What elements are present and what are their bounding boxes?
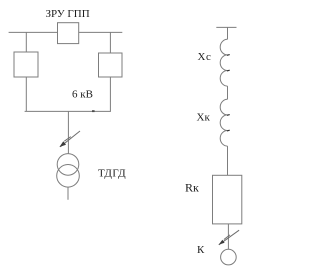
svg-text:ЗРУ ГПП: ЗРУ ГПП xyxy=(46,8,90,20)
wire left stub xyxy=(25,32,27,52)
breaker box right xyxy=(99,53,123,77)
wire bus 6kV top xyxy=(9,31,123,33)
wire feeder drop xyxy=(67,111,69,153)
fault node circle K xyxy=(221,249,237,265)
short-circuit arrow K1 xyxy=(59,131,80,147)
inductor Xc xyxy=(220,39,227,86)
breaker box on bus xyxy=(58,23,79,44)
inductor Xk xyxy=(220,99,227,146)
svg-text:Хс: Хс xyxy=(198,51,212,63)
svg-text:Хк: Хк xyxy=(197,112,211,124)
wire source to Xc xyxy=(227,27,229,39)
wire left drop xyxy=(25,77,27,111)
wire Xk to Rk xyxy=(227,146,229,175)
inductor Xc cusp ticks xyxy=(227,54,230,57)
resistor Rk xyxy=(213,175,242,224)
wire bus 6kV bottom xyxy=(25,110,111,112)
svg-text:ТДГД: ТДГД xyxy=(98,168,126,180)
wire Rk to K xyxy=(227,224,229,250)
svg-text:6 кВ: 6 кВ xyxy=(72,89,93,101)
inductor Xk cusp ticks xyxy=(227,114,230,117)
wire Xc to Xk xyxy=(227,86,229,99)
svg-text:Rк: Rк xyxy=(185,181,199,195)
wire transformer secondary xyxy=(67,187,69,200)
breaker box left xyxy=(14,52,38,77)
svg-text:К: К xyxy=(197,244,205,256)
wire right stub xyxy=(109,32,111,53)
wire right drop xyxy=(109,77,111,111)
transformer ТДГД winding 1 xyxy=(57,154,79,176)
terminal bar (source) xyxy=(216,26,236,28)
short-circuit arrow K2 xyxy=(219,230,240,245)
transformer ТДГД winding 2 xyxy=(57,165,80,188)
junction blot on bus xyxy=(92,110,95,112)
